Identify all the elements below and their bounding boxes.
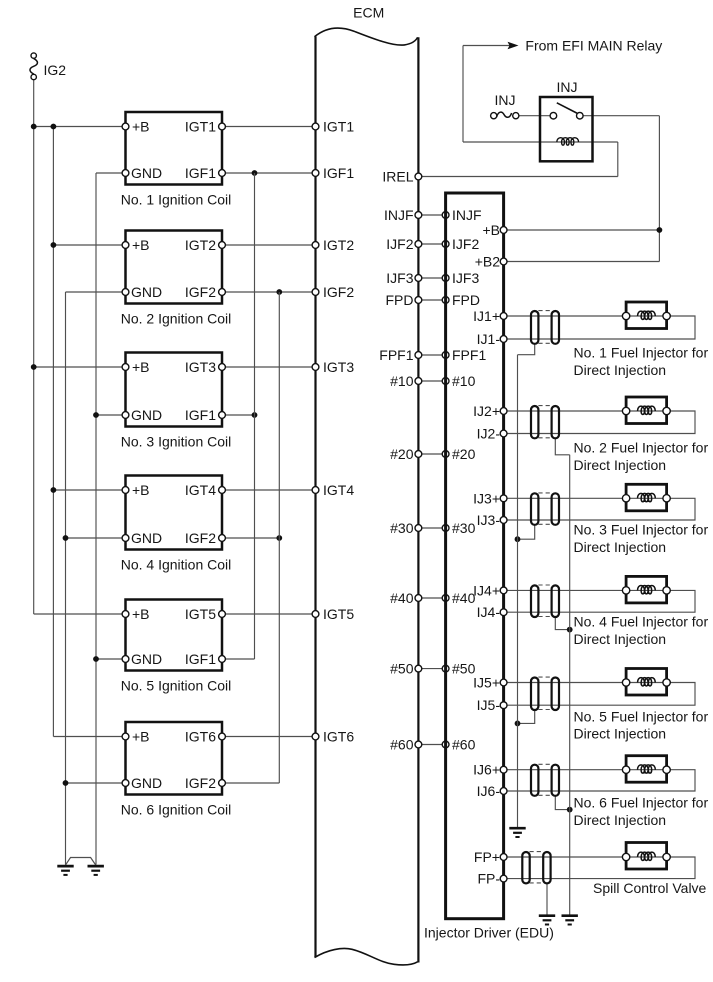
svg-text:Direct Injection: Direct Injection xyxy=(574,726,667,742)
pin GND coil 4 xyxy=(122,535,129,542)
svg-text:#60: #60 xyxy=(452,737,476,753)
shield dashes injector 1 xyxy=(538,310,552,312)
fuel injector 3 coil xyxy=(638,493,656,501)
pin GND coil 3 xyxy=(122,412,129,419)
ignition coil box No. 6 xyxy=(126,722,223,795)
injector 3 left terminal xyxy=(622,495,629,502)
svg-text:IGT6: IGT6 xyxy=(323,729,354,745)
svg-text:IGT4: IGT4 xyxy=(323,482,354,498)
svg-text:IJ5+: IJ5+ xyxy=(473,675,500,691)
fuse INJ right terminal xyxy=(513,113,519,119)
pin IJ1- EDU xyxy=(500,336,507,343)
fuel injector 6 coil xyxy=(638,765,656,773)
shield dashes injector 4 xyxy=(538,584,552,586)
wire #60 ECM to EDU xyxy=(418,744,445,746)
wire IJ5+ EDU to injector xyxy=(504,682,626,684)
ignition coil box No. 5 xyxy=(126,600,223,671)
fuel injector 5 coil xyxy=(638,678,656,686)
wire IJ4+ EDU to injector xyxy=(504,589,626,591)
wire IGF2 coil 4 to bus xyxy=(222,537,279,539)
svg-text:No. 2 Fuel Injector for: No. 2 Fuel Injector for xyxy=(574,440,709,456)
pin IGT5 coil 5 xyxy=(219,611,226,618)
svg-text:No. 1 Ignition Coil: No. 1 Ignition Coil xyxy=(121,192,232,208)
wire #40 ECM to EDU xyxy=(418,597,445,599)
wire IGF1 bus vertical xyxy=(254,173,256,659)
pin IGF2 coil 6 xyxy=(219,780,226,787)
pin #20 EDU xyxy=(442,451,449,458)
wire through injector 6 xyxy=(626,769,667,771)
svg-text:IGF2: IGF2 xyxy=(185,530,216,546)
fuel injector 5 box xyxy=(626,669,667,696)
arrowhead to From EFI MAIN Relay xyxy=(508,42,519,50)
spill control valve coil xyxy=(638,852,656,860)
svg-text:GND: GND xyxy=(131,775,162,791)
wire #20 ECM to EDU xyxy=(418,453,445,455)
ground (coils 1,3,5) xyxy=(88,865,104,868)
svg-text:FP+: FP+ xyxy=(474,849,500,865)
svg-text:IJF3: IJF3 xyxy=(452,270,479,286)
wire GND coil 6 xyxy=(66,782,126,784)
svg-text:#30: #30 xyxy=(452,520,476,536)
svg-text:Direct Injection: Direct Injection xyxy=(574,362,667,378)
pin IJ6- EDU xyxy=(500,788,507,795)
pin #50 EDU xyxy=(442,665,449,672)
svg-text:FP-: FP- xyxy=(477,871,500,887)
shield oval right injector 2 xyxy=(552,406,559,438)
svg-text:INJF: INJF xyxy=(452,207,482,223)
svg-text:No. 1 Fuel Injector for: No. 1 Fuel Injector for xyxy=(574,345,709,361)
pin GND coil 5 xyxy=(122,656,129,663)
ignition coil box No. 4 xyxy=(126,476,223,550)
svg-text:FPD: FPD xyxy=(452,292,480,308)
svg-text:GND: GND xyxy=(131,530,162,546)
pin #40 EDU xyxy=(442,595,449,602)
svg-text:#20: #20 xyxy=(390,446,414,462)
pin IJ2+ EDU xyxy=(500,408,507,415)
wire FPD ECM to EDU xyxy=(418,299,445,301)
svg-text:INJF: INJF xyxy=(384,207,414,223)
injector 3 right terminal xyxy=(663,495,670,502)
svg-text:Direct Injection: Direct Injection xyxy=(574,812,667,828)
svg-text:#20: #20 xyxy=(452,446,476,462)
pin +B2 EDU xyxy=(500,258,507,265)
svg-text:FPD: FPD xyxy=(386,292,414,308)
pin #20 ECM xyxy=(415,451,422,458)
pin FPD ECM xyxy=(415,297,422,304)
wire #10 ECM to EDU xyxy=(418,380,445,382)
svg-text:No. 2 Ignition Coil: No. 2 Ignition Coil xyxy=(121,311,232,327)
shield oval left injector 2 xyxy=(531,406,538,438)
svg-text:#10: #10 xyxy=(390,373,414,389)
svg-text:IGT2: IGT2 xyxy=(185,237,216,253)
fuel injector 2 box xyxy=(626,397,667,424)
junction +B bus A / coil 3 xyxy=(31,364,37,370)
wire through injector 2 xyxy=(626,410,667,412)
wire IJF3 ECM to EDU xyxy=(418,277,445,279)
svg-text:IJ3-: IJ3- xyxy=(477,512,501,528)
wire +B feed coil 3 xyxy=(34,366,126,368)
wire #30 ECM to EDU xyxy=(418,527,445,529)
pin IJ4+ EDU xyxy=(500,587,507,594)
wire +B feed coil 5 (bus A end corner) xyxy=(34,613,126,615)
wire shield bus 1 vertical xyxy=(517,355,519,827)
wire IGF1 coil 3 to bus xyxy=(222,414,255,416)
fuel injector 2 coil xyxy=(638,406,656,414)
junction +B bus A / coil 1 xyxy=(31,124,37,130)
shield dashes spill valve xyxy=(530,851,544,853)
shield oval left injector 1 xyxy=(531,311,538,344)
wire +B bus vertical right xyxy=(658,116,660,262)
junction IGF2 bus / coil 4 xyxy=(276,535,282,541)
svg-text:No. 4 Ignition Coil: No. 4 Ignition Coil xyxy=(121,557,232,573)
fuel injector 1 coil xyxy=(638,311,656,319)
svg-text:No. 3 Fuel Injector for: No. 3 Fuel Injector for xyxy=(574,522,709,538)
pin IJ6+ EDU xyxy=(500,766,507,773)
pin IJF2 EDU xyxy=(442,241,449,248)
pin IGF1 coil 3 xyxy=(219,412,226,419)
wire IJ3- return loop xyxy=(504,498,695,520)
wire +B2 EDU xyxy=(504,261,660,263)
svg-text:Spill Control Valve: Spill Control Valve xyxy=(593,880,707,896)
wire IJ2+ EDU to injector xyxy=(504,410,626,412)
pin IGT4 ECM xyxy=(312,487,319,494)
pin +B coil 3 xyxy=(122,364,129,371)
wire through injector 3 xyxy=(626,497,667,499)
svg-text:IJ2-: IJ2- xyxy=(477,426,501,442)
wire GND coil 5 xyxy=(96,658,126,660)
pin GND coil 6 xyxy=(122,780,129,787)
junction +B bus B start / coil 1 xyxy=(51,124,57,130)
svg-text:Direct Injection: Direct Injection xyxy=(574,539,667,555)
svg-text:GND: GND xyxy=(131,165,162,181)
svg-text:IGT1: IGT1 xyxy=(323,119,354,135)
fuel injector 6 box xyxy=(626,756,667,783)
wire INJF ECM to EDU xyxy=(418,214,445,216)
ECM left edge xyxy=(314,37,316,958)
pin IGF1 coil 5 xyxy=(219,656,226,663)
fuel injector 4 coil xyxy=(638,586,656,594)
pin IJF2 ECM xyxy=(415,241,422,248)
svg-text:IJF2: IJF2 xyxy=(386,236,413,252)
svg-text:IJ4+: IJ4+ xyxy=(473,582,500,598)
svg-text:GND: GND xyxy=(131,407,162,423)
shield oval right injector 6 xyxy=(552,765,559,796)
shield dashes injector 6 xyxy=(538,763,552,765)
wire shield bus 2 vertical xyxy=(569,455,571,915)
wire IGF1 coil 5 to bus xyxy=(222,658,255,660)
wire IREL vertical to relay coil xyxy=(617,142,619,177)
svg-text:IGF1: IGF1 xyxy=(185,651,216,667)
svg-text:ECM: ECM xyxy=(353,5,384,21)
svg-text:+B: +B xyxy=(132,606,150,622)
wire IJ1- return loop xyxy=(504,316,695,339)
wire GND coil 2 xyxy=(66,291,126,293)
pin #60 ECM xyxy=(415,741,422,748)
ground shield bus 2 xyxy=(562,914,578,917)
junction +B bus B / coil 2 xyxy=(51,242,57,248)
pin IGF2 ECM xyxy=(312,289,319,296)
wire GND coil 3 xyxy=(96,414,126,416)
wire IGF2 bus vertical xyxy=(278,292,280,783)
wire +B bus B vertical xyxy=(52,127,54,737)
svg-text:FPF1: FPF1 xyxy=(452,347,486,363)
svg-text:INJ: INJ xyxy=(557,79,578,95)
svg-text:IGT3: IGT3 xyxy=(323,359,354,375)
shield dashes injector 3 xyxy=(538,492,552,494)
pin +B coil 2 xyxy=(122,242,129,249)
svg-text:+B: +B xyxy=(482,222,500,238)
wire IREL horizontal xyxy=(418,176,617,178)
pin #30 EDU xyxy=(442,525,449,532)
shield oval right spill valve xyxy=(543,852,550,883)
svg-text:#50: #50 xyxy=(452,661,476,677)
svg-text:IGT2: IGT2 xyxy=(323,237,354,253)
svg-text:+B: +B xyxy=(132,729,150,745)
ground spill valve shield xyxy=(539,914,555,917)
svg-text:GND: GND xyxy=(131,284,162,300)
pin IGT6 coil 6 xyxy=(219,733,226,740)
svg-text:Direct Injection: Direct Injection xyxy=(574,457,667,473)
pin FP+ EDU xyxy=(500,854,507,861)
wire through injector 5 xyxy=(626,682,667,684)
wire #50 ECM to EDU xyxy=(418,668,445,670)
wire +B bus A vertical (from IG2) xyxy=(33,80,35,614)
fuel injector 4 box xyxy=(626,576,667,603)
pin +B coil 4 xyxy=(122,487,129,494)
wire through injector 1 xyxy=(626,315,667,317)
wire shield drain injector 3 xyxy=(518,525,535,539)
svg-text:IGF1: IGF1 xyxy=(323,165,354,181)
shield dashes injector 2 xyxy=(538,405,552,407)
wire IJ6+ EDU to injector xyxy=(504,769,626,771)
shield oval right injector 3 xyxy=(552,493,559,525)
wire IJ2- return loop xyxy=(504,411,695,434)
connector IG2 squiggle xyxy=(30,59,38,74)
pin IGT1 coil 1 xyxy=(219,123,226,130)
pin +B EDU xyxy=(500,227,507,234)
wire IGF2 coil 6 to bus xyxy=(222,782,279,784)
wire GND bus (coils 2,4,6) vertical xyxy=(65,292,67,865)
svg-text:IJ6+: IJ6+ xyxy=(473,762,500,778)
injector 1 left terminal xyxy=(622,312,629,319)
connector IG2 upper terminal xyxy=(31,53,36,58)
wire fuse to relay contact xyxy=(519,115,554,117)
pin IGT4 coil 4 xyxy=(219,487,226,494)
junction +B / +B bus xyxy=(657,227,663,233)
pin IJ3+ EDU xyxy=(500,495,507,502)
pin FPF1 EDU xyxy=(442,352,449,359)
svg-text:IGT5: IGT5 xyxy=(185,606,216,622)
svg-text:#30: #30 xyxy=(390,520,414,536)
ECM top wavy edge xyxy=(315,28,418,45)
svg-text:IGT3: IGT3 xyxy=(185,359,216,375)
pin FPF1 ECM xyxy=(415,352,422,359)
pin IJF3 ECM xyxy=(415,275,422,282)
junction GND bus / coil 6 xyxy=(63,780,69,786)
svg-text:#50: #50 xyxy=(390,661,414,677)
svg-text:#60: #60 xyxy=(390,737,414,753)
svg-text:No. 5 Fuel Injector for: No. 5 Fuel Injector for xyxy=(574,708,709,724)
wire relay feed vertical xyxy=(462,46,464,143)
wire IGF1 coil 1 to ECM xyxy=(222,172,316,174)
wire FP- return loop xyxy=(504,857,695,879)
valve left terminal xyxy=(622,853,629,860)
injector 4 right terminal xyxy=(663,587,670,594)
svg-text:INJ: INJ xyxy=(495,92,516,108)
wire IJ6- return loop xyxy=(504,770,695,791)
wire relay contact to +B bus xyxy=(583,115,659,117)
wire +B feed coil 6 xyxy=(53,736,125,738)
pin IGF1 coil 1 xyxy=(219,170,226,177)
relay switch left contact xyxy=(550,112,557,119)
pin IJ1+ EDU xyxy=(500,313,507,320)
wire shield drain injector 2 xyxy=(555,438,569,455)
pin FP- EDU xyxy=(500,875,507,882)
svg-text:IJ6-: IJ6- xyxy=(477,783,501,799)
junction GND bus / coil 3 xyxy=(93,412,99,418)
pin IGF2 coil 2 xyxy=(219,289,226,296)
svg-text:IGT1: IGT1 xyxy=(185,119,216,135)
pin #10 ECM xyxy=(415,378,422,385)
wire GND bus (coils 1,3,5) vertical xyxy=(95,173,97,865)
relay INJ box xyxy=(540,97,593,161)
pin #10 EDU xyxy=(442,378,449,385)
svg-text:IREL: IREL xyxy=(382,169,413,185)
wire +B feed coil 2 xyxy=(53,244,125,246)
ignition coil box No. 3 xyxy=(126,353,223,427)
wire shield drain injector 6 xyxy=(555,796,569,810)
injector 6 left terminal xyxy=(622,766,629,773)
wire +B feed coil 4 xyxy=(53,489,125,491)
svg-text:IJF2: IJF2 xyxy=(452,236,479,252)
junction IGF2 bus / ECM line xyxy=(276,289,282,295)
svg-text:No. 5 Ignition Coil: No. 5 Ignition Coil xyxy=(121,678,232,694)
svg-text:+B: +B xyxy=(132,359,150,375)
pin IGT3 ECM xyxy=(312,364,319,371)
wire IGF2 coil 2 to ECM xyxy=(222,291,316,293)
junction GND bus / coil 5 xyxy=(93,656,99,662)
wire IJ1+ EDU to injector xyxy=(504,315,626,317)
spill control valve box xyxy=(626,843,667,870)
svg-text:IJ1-: IJ1- xyxy=(477,331,501,347)
svg-text:IGF2: IGF2 xyxy=(185,775,216,791)
injector driver EDU box xyxy=(446,193,504,919)
fuse INJ left terminal xyxy=(491,113,497,119)
injector 1 right terminal xyxy=(663,312,670,319)
junction GND bus / coil 4 xyxy=(63,535,69,541)
pin IGT3 coil 3 xyxy=(219,364,226,371)
wire +B EDU xyxy=(504,229,660,231)
pin +B coil 6 xyxy=(122,733,129,740)
shield oval left injector 3 xyxy=(531,493,538,525)
relay switch right contact xyxy=(577,112,584,119)
svg-text:Direct Injection: Direct Injection xyxy=(574,631,667,647)
svg-text:No. 4 Fuel Injector for: No. 4 Fuel Injector for xyxy=(574,614,709,630)
svg-text:IGF1: IGF1 xyxy=(185,407,216,423)
pin IJ5+ EDU xyxy=(500,679,507,686)
wire IGT1 coil 1 to ECM xyxy=(222,126,316,128)
junction +B bus B / coil 4 xyxy=(51,487,57,493)
wire IJ4- return loop xyxy=(504,590,695,612)
injector 4 left terminal xyxy=(622,587,629,594)
injector 2 right terminal xyxy=(663,407,670,414)
ECM bottom wavy edge xyxy=(315,948,418,964)
pin IGF2 coil 4 xyxy=(219,535,226,542)
shield oval left spill valve xyxy=(522,852,529,883)
injector 6 right terminal xyxy=(663,766,670,773)
ignition coil box No. 1 xyxy=(126,112,223,185)
wire IJ3+ EDU to injector xyxy=(504,497,626,499)
svg-text:FPF1: FPF1 xyxy=(379,347,413,363)
pin GND coil 1 xyxy=(122,170,129,177)
wire IGT3 coil 3 to ECM xyxy=(222,366,316,368)
pin IGF1 ECM xyxy=(312,170,319,177)
ground (coils 2,4,6) xyxy=(57,865,73,868)
fuse INJ squiggle xyxy=(497,112,512,117)
wire IGT2 coil 2 to ECM xyxy=(222,244,316,246)
svg-text:IGF2: IGF2 xyxy=(323,284,354,300)
svg-text:IGT5: IGT5 xyxy=(323,606,354,622)
shield oval right injector 4 xyxy=(552,585,559,617)
pin IJ2- EDU xyxy=(500,430,507,437)
fuel injector 1 box xyxy=(626,302,667,329)
svg-text:IG2: IG2 xyxy=(44,62,67,78)
wire IGT6 coil 6 to ECM xyxy=(222,736,316,738)
junction IGF1 bus / coil 3 xyxy=(252,412,258,418)
pin IJ4- EDU xyxy=(500,609,507,616)
ignition coil box No. 2 xyxy=(126,231,223,304)
svg-text:+B2: +B2 xyxy=(475,254,501,270)
shield oval left injector 6 xyxy=(531,765,538,796)
svg-text:From EFI MAIN Relay: From EFI MAIN Relay xyxy=(525,37,662,53)
pin #30 ECM xyxy=(415,525,422,532)
pin #50 ECM xyxy=(415,665,422,672)
svg-text:No. 6 Ignition Coil: No. 6 Ignition Coil xyxy=(121,802,232,818)
pin #40 ECM xyxy=(415,595,422,602)
pin INJF ECM xyxy=(415,212,422,219)
pin IGT2 ECM xyxy=(312,242,319,249)
injector 5 right terminal xyxy=(663,679,670,686)
svg-text:IGF2: IGF2 xyxy=(185,284,216,300)
wire ground bridge xyxy=(66,858,96,866)
fuel injector 3 box xyxy=(626,484,667,511)
wire GND coil 4 xyxy=(66,537,126,539)
svg-text:+B: +B xyxy=(132,482,150,498)
wire FPF1 ECM to EDU xyxy=(418,354,445,356)
valve right terminal xyxy=(663,853,670,860)
relay switch blade xyxy=(557,103,579,114)
svg-text:IJ4-: IJ4- xyxy=(477,604,501,620)
junction shield drain 6 / bus xyxy=(567,807,573,813)
wire IJF2 ECM to EDU xyxy=(418,243,445,245)
wire shield drain injector 5 xyxy=(518,710,535,723)
wire FP+ EDU to valve xyxy=(504,856,626,858)
injector 2 left terminal xyxy=(622,407,629,414)
svg-text:+B: +B xyxy=(132,237,150,253)
svg-text:#40: #40 xyxy=(390,590,414,606)
pin IJF3 EDU xyxy=(442,275,449,282)
junction IGF1 bus / ECM line xyxy=(252,170,258,176)
svg-text:IGT6: IGT6 xyxy=(185,729,216,745)
wire GND coil 1 xyxy=(96,172,126,174)
pin IREL ECM xyxy=(415,173,422,180)
svg-text:IGF1: IGF1 xyxy=(185,165,216,181)
svg-text:IJ2+: IJ2+ xyxy=(473,403,500,419)
ECM right edge xyxy=(417,37,419,962)
wire through spill control valve xyxy=(626,856,667,858)
shield oval left injector 5 xyxy=(531,678,538,711)
pin IGT2 coil 2 xyxy=(219,242,226,249)
